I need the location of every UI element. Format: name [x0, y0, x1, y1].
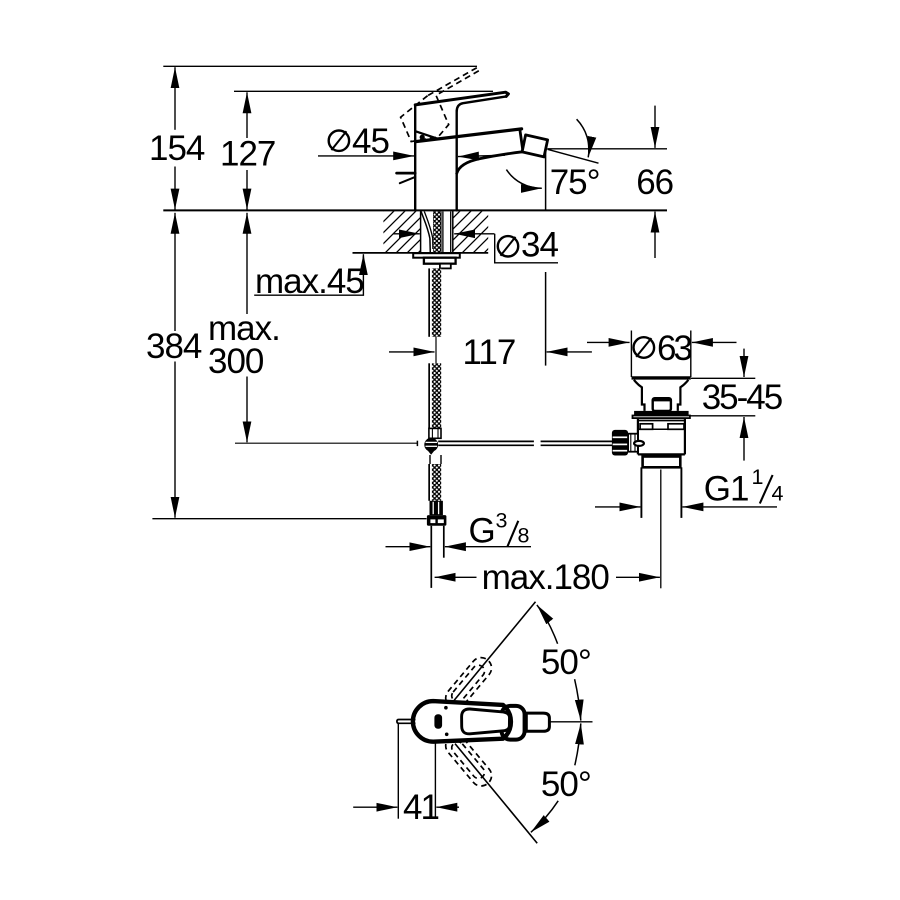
svg-text:1: 1	[752, 465, 764, 489]
svg-text:35-45: 35-45	[702, 378, 782, 417]
svg-text:75°: 75°	[550, 163, 600, 202]
svg-text:50°: 50°	[541, 765, 591, 804]
svg-text:45: 45	[352, 122, 389, 161]
svg-text:max.45: max.45	[255, 262, 364, 301]
svg-text:G: G	[469, 511, 495, 550]
svg-text:300: 300	[208, 342, 264, 381]
svg-text:50°: 50°	[541, 643, 591, 682]
svg-text:41: 41	[403, 788, 438, 827]
svg-text:3: 3	[496, 508, 508, 532]
svg-text:4: 4	[772, 482, 784, 506]
svg-text:117: 117	[463, 333, 516, 372]
svg-text:63: 63	[657, 329, 691, 368]
svg-text:8: 8	[518, 524, 530, 548]
svg-text:384: 384	[146, 327, 202, 366]
svg-text:66: 66	[636, 163, 673, 202]
svg-text:127: 127	[220, 135, 275, 174]
svg-text:G1: G1	[704, 470, 749, 509]
svg-text:max.180: max.180	[482, 558, 610, 597]
svg-text:154: 154	[149, 129, 205, 168]
svg-text:34: 34	[521, 226, 558, 265]
